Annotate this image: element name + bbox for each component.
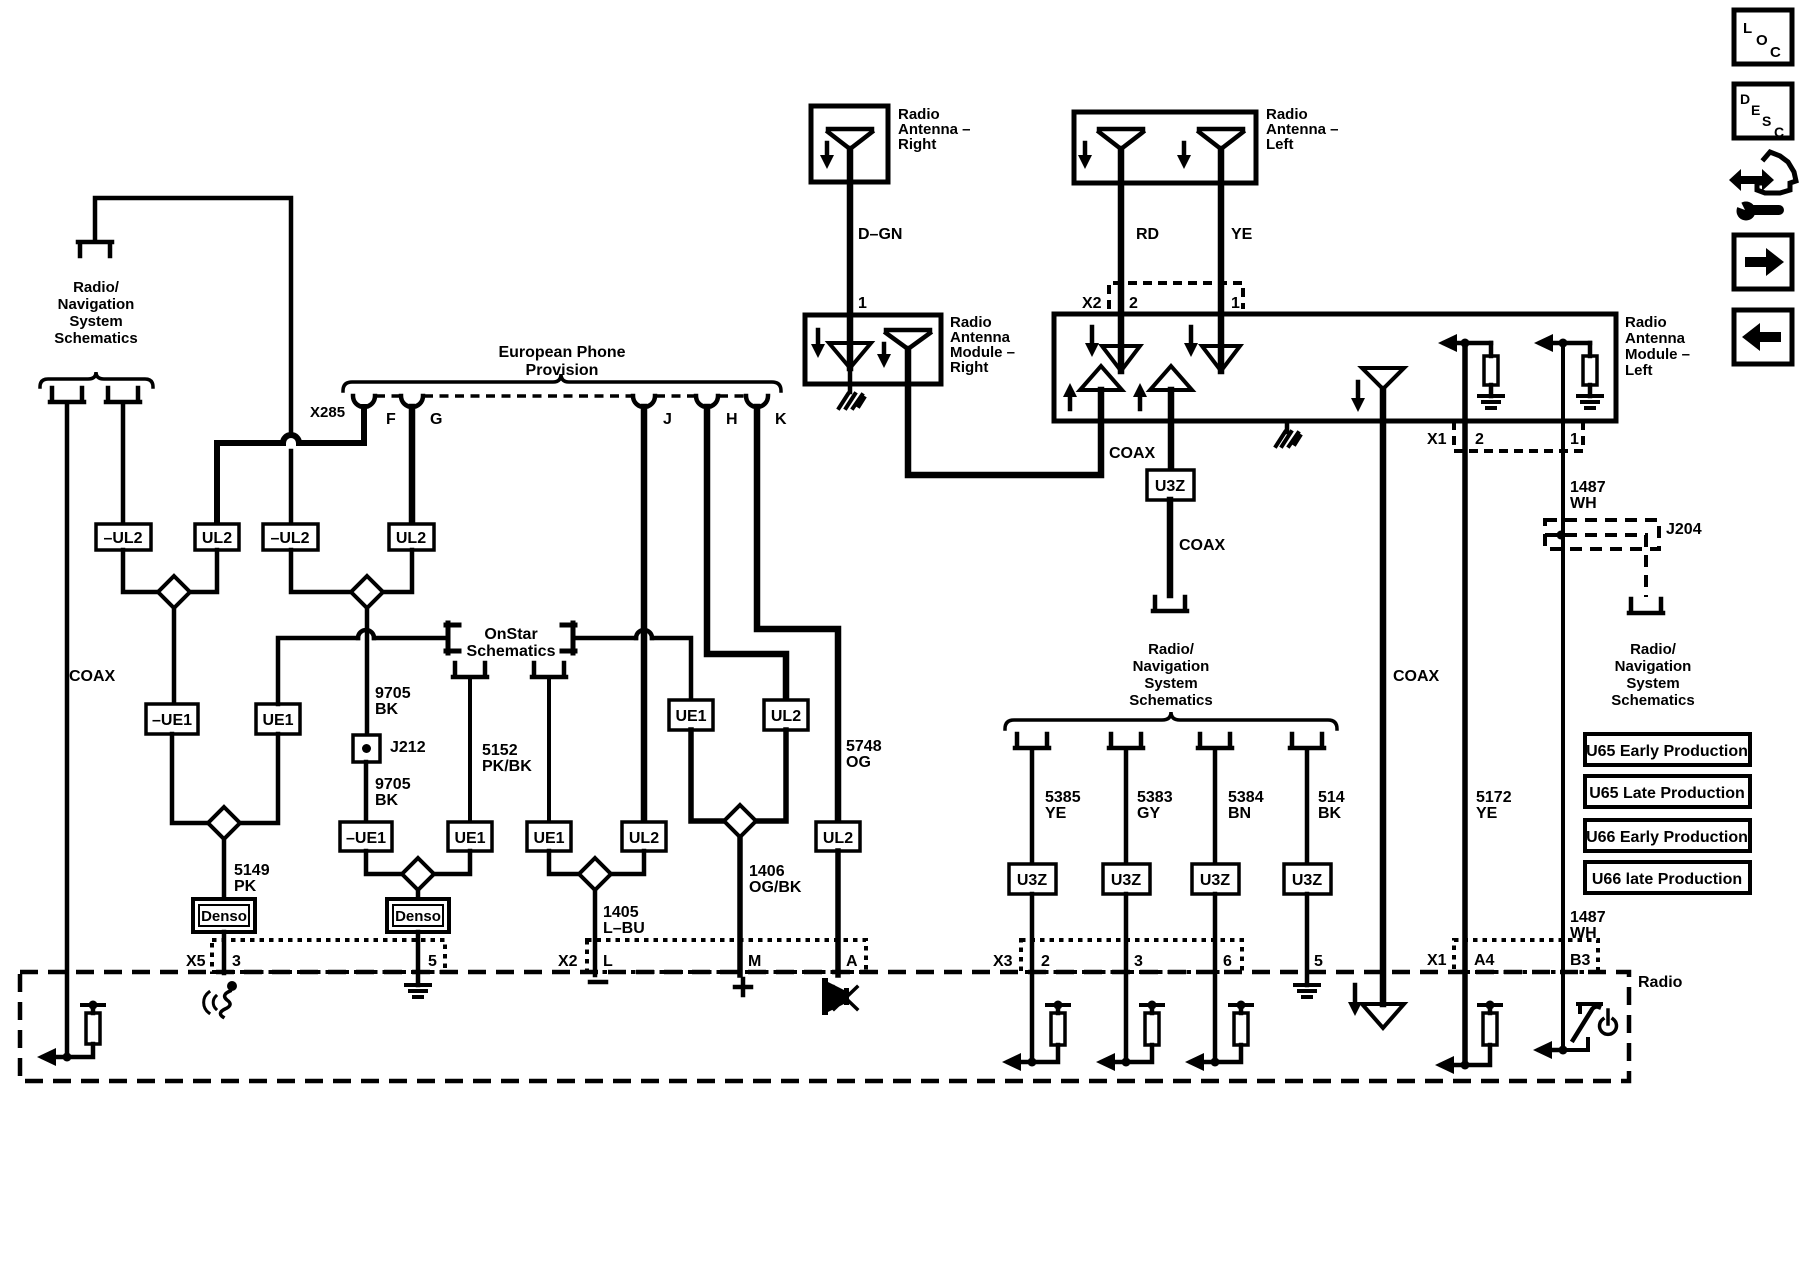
svg-text:OnStar: OnStar xyxy=(484,626,537,643)
radio internal: power icon xyxy=(1600,1010,1617,1034)
wire YE xyxy=(1218,149,1225,371)
connector cup feeding -UL2 xyxy=(106,388,140,402)
svg-text:YE: YE xyxy=(1045,805,1067,822)
svg-text:Schematics: Schematics xyxy=(1611,692,1694,709)
arrow down (left-box 1) xyxy=(1078,143,1092,169)
svg-text:C: C xyxy=(1770,44,1781,61)
svg-text:1406: 1406 xyxy=(749,863,785,880)
label 1487 WH (upper) xyxy=(1570,479,1606,512)
wire D-GN antenna to module right xyxy=(847,149,854,368)
connector X285 pin G socket xyxy=(401,396,423,407)
inline label UL2 (row C c) xyxy=(622,822,666,851)
wire hump over vertical 9705 wire xyxy=(358,630,374,638)
svg-text:3: 3 xyxy=(1134,953,1143,970)
svg-text:Denso: Denso xyxy=(201,908,247,925)
svg-text:9705: 9705 xyxy=(375,776,411,793)
svg-text:X2: X2 xyxy=(558,953,578,970)
inline label UE1 (left chain) xyxy=(256,704,300,734)
svg-text:2: 2 xyxy=(1041,953,1050,970)
splice diamond 3 xyxy=(208,807,240,839)
inline label U3Z (coax) xyxy=(1147,470,1194,500)
radio internal: resistor top bar and dot (wire 3) xyxy=(1141,1001,1163,1010)
svg-text:D–GN: D–GN xyxy=(858,226,902,243)
module left branch 2 junction dot xyxy=(1559,339,1568,348)
radio internal: arrow left (wire 6) xyxy=(1185,1053,1204,1071)
wire 5385 YE upper xyxy=(1030,750,1035,864)
svg-text:D: D xyxy=(1740,91,1750,107)
wire U3Z4 to ground xyxy=(1305,894,1310,985)
svg-text:M: M xyxy=(748,953,761,970)
module left resistor 2 xyxy=(1583,343,1597,396)
connector cup X3 wire 3 xyxy=(1109,734,1143,748)
text European Phone Provision xyxy=(498,344,625,379)
module left resistor branch 2: arrow left xyxy=(1534,334,1590,352)
svg-text:E: E xyxy=(1751,102,1760,118)
svg-text:5152: 5152 xyxy=(482,742,518,759)
radio internal: junction dot wire 6 xyxy=(1211,1058,1220,1067)
svg-text:–UL2: –UL2 xyxy=(270,530,309,547)
svg-text:Radio: Radio xyxy=(1625,314,1667,331)
svg-text:5383: 5383 xyxy=(1137,789,1173,806)
icon DESC box xyxy=(1734,84,1792,138)
wire 5172 YE (A4) xyxy=(1462,343,1468,1065)
radio internal: resistor top bar and dot (A4) xyxy=(1479,1001,1501,1010)
radio internal: junction dot B3 xyxy=(1559,1046,1568,1055)
svg-text:2: 2 xyxy=(1475,431,1484,448)
radio internal: arrow/resistor branch wire 2 xyxy=(1009,1007,1058,1062)
arrow down (module left in 2) xyxy=(1085,327,1099,357)
svg-text:S: S xyxy=(1762,113,1771,129)
connector cup (J204 destination) xyxy=(1629,599,1663,613)
svg-text:A4: A4 xyxy=(1474,952,1495,969)
radio internal: junction dot wire 3 xyxy=(1122,1058,1131,1067)
label Radio Antenna Module - Left xyxy=(1625,314,1690,379)
svg-text:WH: WH xyxy=(1570,925,1597,942)
radio internal: arrow left (COAX) xyxy=(37,1048,56,1066)
svg-text:UL2: UL2 xyxy=(823,830,853,847)
svg-text:U3Z: U3Z xyxy=(1155,478,1185,495)
svg-text:UE1: UE1 xyxy=(262,712,293,729)
wire J212 to -UE1 xyxy=(364,762,369,822)
wire diamond 6 to X2 pin M xyxy=(737,837,743,975)
box Radio Antenna - Right xyxy=(811,106,888,182)
svg-text:COAX: COAX xyxy=(1393,668,1440,685)
box U65 Late Production xyxy=(1585,776,1750,807)
svg-text:9705: 9705 xyxy=(375,685,411,702)
arrow down (module left mid) xyxy=(1351,382,1365,412)
svg-text:5: 5 xyxy=(1314,953,1323,970)
svg-text:UE1: UE1 xyxy=(454,830,485,847)
svg-text:Radio: Radio xyxy=(1638,974,1683,991)
svg-text:X285: X285 xyxy=(310,404,345,421)
svg-text:U65 Late Production: U65 Late Production xyxy=(1589,785,1745,802)
radio internal: junction dot A4 xyxy=(1461,1061,1470,1070)
svg-text:5385: 5385 xyxy=(1045,789,1081,806)
svg-text:Denso: Denso xyxy=(395,908,441,925)
wire U3Z3 into radio xyxy=(1213,894,1218,1062)
label 9705 BK (lower) xyxy=(375,776,411,809)
svg-text:1: 1 xyxy=(1231,295,1240,312)
svg-text:6: 6 xyxy=(1223,953,1232,970)
svg-text:L: L xyxy=(1743,20,1752,37)
radio internal: resistor (wire 6) xyxy=(1234,1013,1248,1045)
wire from top-left cup up and across to -UL2 branch xyxy=(95,198,291,435)
inline label U3Z (2) xyxy=(1103,864,1150,894)
label 1487 WH (lower) xyxy=(1570,909,1606,942)
icon repair/tool (double arrow, hook outline, wrench) xyxy=(1729,152,1796,221)
svg-text:WH: WH xyxy=(1570,495,1597,512)
radio internal: resistor (A4) xyxy=(1483,1013,1497,1045)
radio internal: arrow left (B3) xyxy=(1533,1041,1563,1059)
module left branch 1 junction dot xyxy=(1461,339,1470,348)
Radio dashed outline box xyxy=(20,972,1629,1081)
icon LOC box (top right) xyxy=(1734,10,1792,64)
svg-text:X1: X1 xyxy=(1427,431,1447,448)
svg-text:UL2: UL2 xyxy=(629,830,659,847)
svg-text:COAX: COAX xyxy=(1109,445,1156,462)
ground (module left branch 1) xyxy=(1479,396,1503,408)
connector X285 pin J socket xyxy=(633,396,655,407)
splice diamond 1 xyxy=(158,576,190,608)
svg-text:System: System xyxy=(69,313,122,330)
arrow down (antenna right) xyxy=(820,143,834,169)
antenna triangle down (module left in 2) xyxy=(1102,346,1140,371)
svg-text:OG/BK: OG/BK xyxy=(749,879,802,896)
text Radio/Navigation System Schematics (middle) xyxy=(1129,641,1212,709)
connector X2 dotted box (module left top) xyxy=(1109,283,1243,309)
splice J212 box xyxy=(353,735,380,762)
connector X285 dashed line xyxy=(376,394,745,398)
radio internal: resistor (wire 2) xyxy=(1051,1013,1065,1045)
svg-text:B3: B3 xyxy=(1570,952,1591,969)
radio internal: arrow down beside COAX triangle xyxy=(1348,985,1362,1016)
brace European Phone Provision xyxy=(343,374,781,391)
svg-text:UL2: UL2 xyxy=(771,708,801,725)
icon LOC letters xyxy=(1743,20,1781,61)
wire UE1(b) to diamond 5 xyxy=(549,851,579,874)
wire -UL2 to splice diamond 1 xyxy=(123,550,158,592)
wire U3Z2 into radio xyxy=(1124,894,1129,1062)
radio internal: resistor top bar and dot (wire 6) xyxy=(1230,1001,1252,1010)
inline label UL2 (row C d) xyxy=(816,822,860,851)
svg-text:1487: 1487 xyxy=(1570,479,1606,496)
label 514 BK xyxy=(1318,789,1345,822)
connector cup under OnStar (right) xyxy=(532,663,566,677)
wire -UE1 rowC to diamond 4 xyxy=(366,851,402,874)
svg-text:YE: YE xyxy=(1231,226,1253,243)
svg-text:1487: 1487 xyxy=(1570,909,1606,926)
splice diamond 2 xyxy=(351,576,383,608)
wire -UL2(2) to splice diamond 2 xyxy=(291,550,351,592)
svg-text:F: F xyxy=(386,411,396,428)
wire UL2(2) to splice diamond 2 xyxy=(383,550,412,592)
inline label UL2 (2) xyxy=(389,524,434,550)
wire diamond 1 to -UE1 xyxy=(172,608,177,704)
box Radio Antenna - Left xyxy=(1074,112,1256,183)
svg-text:GY: GY xyxy=(1137,805,1160,822)
svg-text:5384: 5384 xyxy=(1228,789,1264,806)
module left resistor 1 xyxy=(1484,343,1498,396)
box U66 late Production xyxy=(1585,862,1750,893)
svg-text:L–BU: L–BU xyxy=(603,920,645,937)
svg-text:COAX: COAX xyxy=(1179,537,1226,554)
connector X1 dotted box (module left bottom) xyxy=(1454,421,1583,451)
wire U3Z1 into radio xyxy=(1030,894,1035,1062)
wire UL2 to splice diamond 1 xyxy=(190,550,217,592)
connector X2 dotted box xyxy=(587,940,866,972)
radio internal: muted speaker icon (pin A) xyxy=(822,978,857,1015)
svg-text:System: System xyxy=(1626,675,1679,692)
inline label UE1 (row C b) xyxy=(527,822,571,851)
svg-text:J212: J212 xyxy=(390,739,426,756)
svg-text:5748: 5748 xyxy=(846,738,882,755)
wire from pin H down and right to UL2 xyxy=(707,407,786,700)
svg-text:U3Z: U3Z xyxy=(1017,872,1047,889)
wire coax module right to module left xyxy=(908,349,1101,475)
radio internal: resistor (wire 3) xyxy=(1145,1013,1159,1045)
wire 5383 GY upper xyxy=(1124,750,1129,864)
brace over X3 schematic cups xyxy=(1005,712,1337,729)
svg-text:K: K xyxy=(775,411,787,428)
wire hump on F horizontal over vertical wire xyxy=(283,435,299,443)
label 5383 GY xyxy=(1137,789,1173,822)
antenna symbol (Radio Antenna Right) xyxy=(828,129,872,149)
chassis ground (module left) xyxy=(1276,432,1300,446)
chassis ground (module right) xyxy=(839,394,864,408)
svg-text:5149: 5149 xyxy=(234,862,270,879)
wire diamond 2 down to J212 (passes under OnStar hump) xyxy=(365,608,370,735)
svg-text:Radio/: Radio/ xyxy=(1630,641,1677,658)
wire 5384 BN upper xyxy=(1213,750,1218,864)
box Radio Antenna Module - Left xyxy=(1054,314,1616,421)
box U65 Early Production xyxy=(1585,734,1750,765)
svg-text:Left: Left xyxy=(1266,136,1294,153)
wire 1487 WH (B3) xyxy=(1561,343,1565,1050)
radio internal: junction dot on COAX xyxy=(63,1053,72,1062)
svg-text:J: J xyxy=(663,411,672,428)
wire from pin J down to UL2 (long) xyxy=(641,407,648,822)
connector X5 dotted box xyxy=(212,940,445,972)
wire diamond 5 to X2 pin L xyxy=(593,890,598,975)
svg-text:Schematics: Schematics xyxy=(467,643,556,660)
radio internal: plus sign (pin M) xyxy=(735,979,751,995)
label 9705 BK (upper) xyxy=(375,685,411,718)
label 5384 BN xyxy=(1228,789,1264,822)
wire hump over J wire xyxy=(636,630,652,638)
connector X285 pin K socket xyxy=(746,396,768,407)
svg-text:Navigation: Navigation xyxy=(1133,658,1210,675)
radio internal: junction dot wire 2 xyxy=(1028,1058,1037,1067)
svg-text:U3Z: U3Z xyxy=(1111,872,1141,889)
svg-text:U66 late Production: U66 late Production xyxy=(1592,871,1742,888)
wire 514 BK upper xyxy=(1305,750,1310,864)
Denso box 1 xyxy=(193,899,255,932)
svg-text:5172: 5172 xyxy=(1476,789,1512,806)
box Radio Antenna Module - Right xyxy=(805,315,941,384)
svg-text:OG: OG xyxy=(846,754,871,771)
antenna triangle up (module left out b) xyxy=(1150,366,1192,390)
svg-text:–UL2: –UL2 xyxy=(103,530,142,547)
wire from pin K down and right to UL2 xyxy=(757,407,838,822)
inline label UE1 (phone chain) xyxy=(669,700,713,730)
svg-text:L: L xyxy=(603,953,613,970)
svg-text:X3: X3 xyxy=(993,953,1013,970)
connector cup (coax to radio/nav schematics) xyxy=(1153,597,1187,611)
chassis ground stem (module left) xyxy=(1285,421,1290,432)
wire UE1(phone) to diamond 6 xyxy=(691,730,724,821)
svg-text:Navigation: Navigation xyxy=(58,296,135,313)
svg-text:3: 3 xyxy=(232,953,241,970)
svg-text:BK: BK xyxy=(375,701,399,718)
wire OnStar right to UE1, hump over J wire xyxy=(577,638,691,700)
svg-text:H: H xyxy=(726,411,738,428)
connector X285 pin F socket xyxy=(353,396,375,407)
label 5385 YE xyxy=(1045,789,1081,822)
wire Denso 2 to X5 pin 5 ground xyxy=(416,932,421,985)
inline label UL2 (phone chain) xyxy=(764,700,808,730)
svg-text:PK/BK: PK/BK xyxy=(482,758,532,775)
svg-text:1405: 1405 xyxy=(603,904,639,921)
svg-text:U66 Early Production: U66 Early Production xyxy=(1586,829,1748,846)
svg-text:Antenna: Antenna xyxy=(1625,330,1686,347)
antenna triangle down (module left mid) xyxy=(1362,368,1404,389)
wire RD xyxy=(1118,149,1125,371)
wire continues below hump to -UL2 label xyxy=(289,451,294,524)
svg-text:O: O xyxy=(1756,32,1768,49)
box U66 Early Production xyxy=(1585,820,1750,851)
radio internal: arrow/resistor branch A4 xyxy=(1442,1007,1490,1065)
wire Denso to X5 pin 3 xyxy=(222,932,227,973)
inline label -UE1 (left chain) xyxy=(146,704,198,734)
wire COAX long (module left to radio) xyxy=(1380,389,1387,1004)
Denso box 2 xyxy=(387,899,449,932)
wire COAX left vertical xyxy=(65,404,70,1057)
inline label -UL2 (2) xyxy=(263,524,318,550)
svg-text:G: G xyxy=(430,411,442,428)
radio internal: power switch (B3) xyxy=(1563,1004,1601,1050)
inline label -UL2 (1) xyxy=(96,524,151,550)
svg-text:European Phone: European Phone xyxy=(498,344,625,361)
label Radio Antenna Module - Right xyxy=(950,314,1015,376)
ground stem below module right xyxy=(848,368,853,392)
svg-text:System: System xyxy=(1144,675,1197,692)
svg-text:PK: PK xyxy=(234,878,257,895)
connector cup X3 wire 2 xyxy=(1015,734,1049,748)
text Radio/Navigation System Schematics (left) xyxy=(54,279,137,347)
connector X285 pin H socket xyxy=(696,396,718,407)
connector cup X3 wire 6 xyxy=(1198,734,1232,748)
splice J204 dashed box xyxy=(1545,520,1659,597)
arrow down (left-box 2) xyxy=(1177,143,1191,169)
svg-text:–UE1: –UE1 xyxy=(346,830,386,847)
svg-text:A: A xyxy=(846,953,858,970)
svg-text:X5: X5 xyxy=(186,953,206,970)
radio internal: microphone icon (X5 pin3) xyxy=(204,981,237,1017)
svg-text:COAX: COAX xyxy=(69,668,116,685)
svg-text:Provision: Provision xyxy=(526,362,599,379)
brace over left schematic cups xyxy=(40,372,153,387)
arrow down (module right input) xyxy=(811,330,825,358)
label 5149 PK xyxy=(234,862,270,895)
wire from pin G down to UL2 xyxy=(409,407,416,524)
svg-text:BN: BN xyxy=(1228,805,1251,822)
icon DESC letters xyxy=(1740,91,1784,140)
connector X3 dotted box xyxy=(1021,940,1242,972)
svg-text:Module –: Module – xyxy=(1625,346,1690,363)
svg-text:1: 1 xyxy=(1570,431,1579,448)
svg-text:UL2: UL2 xyxy=(202,530,232,547)
connector cup X3 wire 5 xyxy=(1290,734,1324,748)
radio internal: arrow/resistor branch wire 6 xyxy=(1192,1007,1241,1062)
label 5152 PK/BK xyxy=(482,742,532,775)
inline label -UE1 (row C) xyxy=(340,822,392,851)
wire UL2(d) to X2 pin A xyxy=(835,851,841,975)
inline label UE1 (row C a) xyxy=(448,822,492,851)
svg-text:U3Z: U3Z xyxy=(1292,872,1322,889)
icon right-arrow box xyxy=(1734,235,1792,289)
svg-text:Radio/: Radio/ xyxy=(73,279,120,296)
radio internal: arrow left (wire 2) xyxy=(1002,1053,1021,1071)
svg-text:RD: RD xyxy=(1136,226,1159,243)
radio internal: arrow/resistor branch wire 3 xyxy=(1103,1007,1152,1062)
module left resistor branch 1: arrow left xyxy=(1438,334,1491,352)
svg-text:UL2: UL2 xyxy=(396,530,426,547)
svg-text:5: 5 xyxy=(428,953,437,970)
label 1405 L-BU xyxy=(603,904,645,937)
arrow down (module right output) xyxy=(877,344,891,368)
antenna triangle down (module right) xyxy=(829,343,871,368)
svg-text:C: C xyxy=(1774,124,1784,140)
wire cup to UE1 (right) xyxy=(547,679,551,822)
connector cup to Radio/Navigation schematic (top left) xyxy=(78,242,112,256)
svg-text:BK: BK xyxy=(1318,805,1342,822)
radio internal: arrow left (A4) xyxy=(1435,1056,1454,1074)
wire from pin F left to UL2 branch with hump over vertical xyxy=(217,407,364,524)
radio internal: resistor (COAX) xyxy=(86,1013,100,1044)
svg-text:514: 514 xyxy=(1318,789,1345,806)
text Radio/Navigation System Schematics (right) xyxy=(1611,641,1694,709)
wire module left to U3Z coax xyxy=(1168,390,1175,470)
wire cup to -UL2 box xyxy=(121,404,126,524)
radio internal: minus sign (pin L) xyxy=(590,980,606,985)
antenna symbol left-box 1 xyxy=(1099,129,1143,149)
ground under X3 pin 5 xyxy=(1295,985,1319,997)
label 5172 YE xyxy=(1476,789,1512,822)
inline label U3Z (1) xyxy=(1009,864,1056,894)
radio internal: arrow left (wire 3) xyxy=(1096,1053,1115,1071)
antenna symbol left-box 2 xyxy=(1199,129,1243,149)
radio internal: wire to left arrow and resistor xyxy=(44,1007,93,1057)
svg-text:Radio/: Radio/ xyxy=(1148,641,1195,658)
wire diamond 4 to Denso 2 xyxy=(416,890,421,899)
svg-text:J204: J204 xyxy=(1666,521,1702,538)
connector X1 dotted box (radio) xyxy=(1454,940,1598,972)
svg-text:Navigation: Navigation xyxy=(1615,658,1692,675)
wire diamond 3 to Denso xyxy=(222,839,227,899)
antenna T symbol (module right output) xyxy=(886,330,930,349)
radio internal: resistor top bar and dot xyxy=(82,1001,104,1010)
OnStar right bracket xyxy=(562,623,575,653)
ground under X5 pin 5 xyxy=(406,985,430,997)
radio internal: resistor top bar and dot (wire 2) xyxy=(1047,1001,1069,1010)
svg-text:Left: Left xyxy=(1625,362,1653,379)
svg-text:Schematics: Schematics xyxy=(54,330,137,347)
antenna triangle up (module left out a) xyxy=(1080,366,1122,390)
radio internal: COAX antenna triangle xyxy=(1362,1004,1404,1028)
label 1406 OG/BK xyxy=(749,863,802,896)
ground (module left branch 2) xyxy=(1578,396,1602,408)
connector cup under OnStar (left) xyxy=(453,663,487,677)
